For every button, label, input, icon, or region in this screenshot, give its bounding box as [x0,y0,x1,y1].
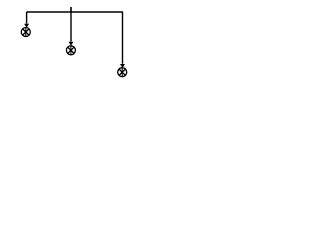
lamp LP3 [118,64,127,77]
lamp LP2 [66,42,75,55]
wire: top horizontal bus [27,11,123,13]
node: center tap stub above bus [70,7,72,12]
wire: left drop [26,12,28,24]
wire: right drop [122,12,124,64]
wire: middle drop [70,12,72,42]
lamp LP1 [21,24,30,37]
